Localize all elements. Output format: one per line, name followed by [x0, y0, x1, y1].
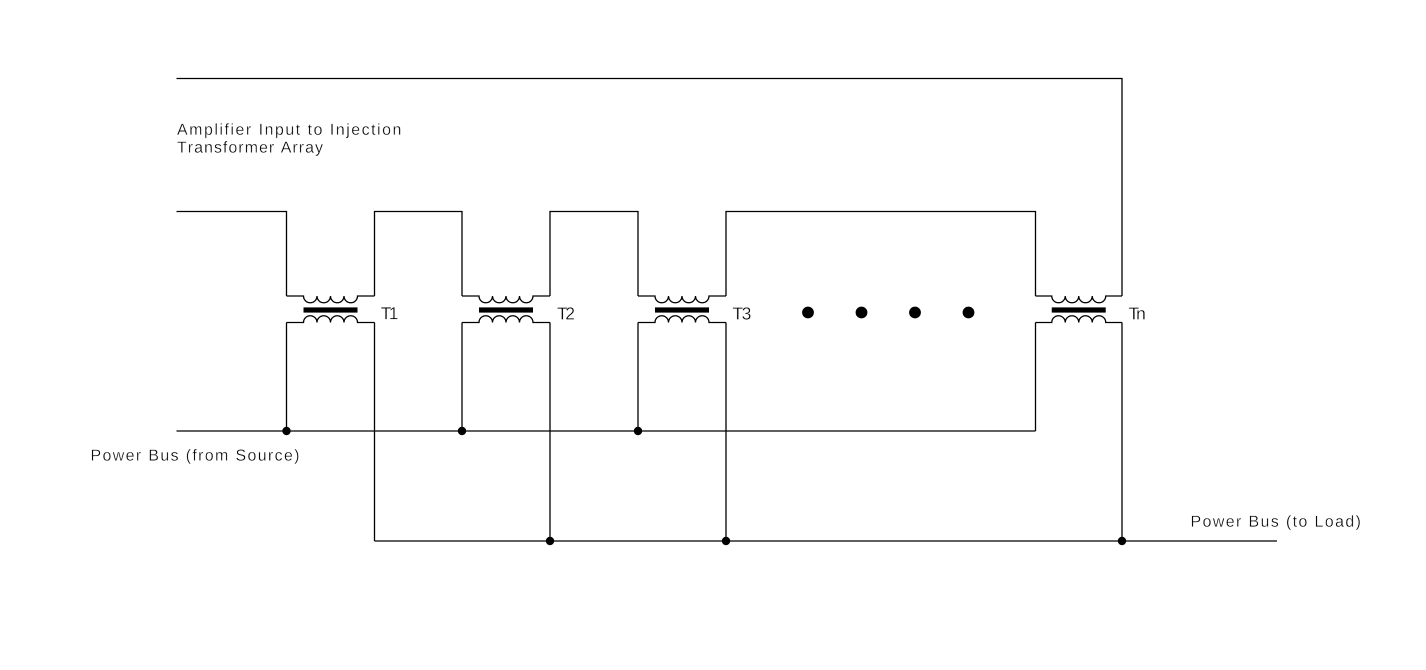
transformer Tn secondary winding [1036, 316, 1123, 323]
transformer T2 secondary winding [462, 316, 550, 323]
label: amplifier input note line 1 [177, 123, 400, 138]
transformer Tn primary winding [1036, 296, 1123, 303]
ellipsis dot 3 (array continuation) [909, 307, 921, 319]
ellipsis dot 1 (array continuation) [802, 307, 814, 319]
transformer T2 core [479, 307, 533, 312]
label: transformer T3 reference [733, 307, 751, 319]
wire: Tn secondary right lead down to load bus [1121, 323, 1123, 542]
wire: T1 secondary left lead down to source bus [286, 323, 288, 432]
wire: amplifier return, top line from left end down to Tn primary right lead [177, 79, 1123, 297]
wire: T3 primary right lead up and link to Tn primary left lead [726, 212, 1036, 297]
wire: amplifier input line to T1 primary left lead [177, 212, 287, 297]
label: transformer T1 reference [381, 307, 398, 319]
transformer T2 primary winding [462, 296, 550, 303]
wire: T3 secondary left lead down to source bus [637, 323, 639, 432]
transformer T1 secondary winding [287, 316, 375, 323]
junction: T2 secondary to source bus [458, 427, 466, 435]
wire: Tn secondary left lead down to source bus [1035, 323, 1037, 432]
junction: T1 secondary to source bus [282, 427, 290, 435]
wire: T1 primary right lead up and link to T2 primary left lead [375, 212, 463, 297]
wire: T2 secondary left lead down to source bus [461, 323, 463, 432]
wire: T3 secondary right lead down to load bus [725, 323, 727, 542]
wire: T2 primary right lead up and link to T3 primary left lead [550, 212, 638, 297]
transformer Tn core [1052, 307, 1106, 312]
wire: T2 secondary right lead down to load bus [549, 323, 551, 542]
label: amplifier input note line 2 [177, 141, 323, 156]
junction: T3 secondary to source bus [634, 427, 642, 435]
junction: T3 secondary to load bus [722, 537, 730, 545]
transformer T3 primary winding [638, 296, 726, 303]
label: power bus to load [1192, 515, 1360, 530]
label: transformer Tn reference [1129, 308, 1145, 320]
wire: power bus to load (lower bus) [375, 540, 1278, 542]
label: transformer T2 reference [557, 307, 574, 319]
wire: T1 secondary right lead down to load bus [374, 323, 376, 542]
transformer T3 core [655, 307, 709, 312]
transformer T3 secondary winding [638, 316, 726, 323]
label: power bus from source [92, 449, 299, 464]
ellipsis dot 4 (array continuation) [963, 307, 975, 319]
ellipsis dot 2 (array continuation) [856, 307, 868, 319]
junction: Tn secondary to load bus [1118, 537, 1126, 545]
wire: power bus from source (upper bus) [177, 430, 1036, 432]
transformer T1 core [304, 307, 358, 312]
junction: T2 secondary to load bus [546, 537, 554, 545]
transformer T1 primary winding [287, 296, 375, 303]
